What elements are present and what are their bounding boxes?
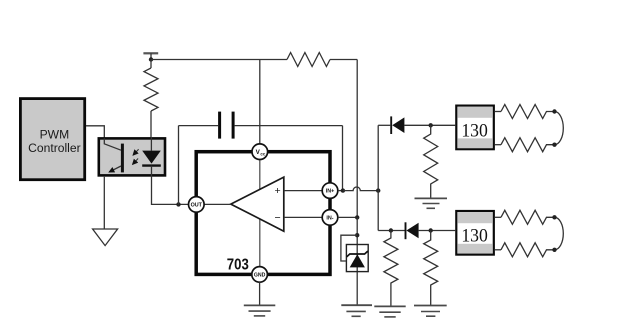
svg-text:IN+: IN+ xyxy=(326,189,335,195)
wire: IN- down through zener to ground xyxy=(356,217,358,305)
wire: D1 anode to load box 1 xyxy=(404,124,455,126)
wire: zener left bracket xyxy=(341,235,357,261)
wire: diode branch vertical x=378 xyxy=(377,125,379,230)
op-amp A1 triangle xyxy=(231,177,284,231)
resistor R2 (top feedback resistor) xyxy=(287,53,330,67)
wire: T1 bottom output xyxy=(495,144,501,146)
ground (open triangle) for optocoupler emitter xyxy=(93,229,118,246)
resistor R7a (T2 top) xyxy=(501,210,555,224)
svg-text:OUT: OUT xyxy=(191,203,203,209)
node: T2 loop top xyxy=(552,215,556,219)
wire: GND pin to ground xyxy=(259,282,261,305)
diode D1 triangle xyxy=(392,117,404,133)
zener diode VR1 cathode bar xyxy=(347,251,368,257)
node: IN- junction xyxy=(355,215,359,219)
resistor R5 (row2 right, to ground) xyxy=(424,231,438,306)
node: rail junction dot xyxy=(149,57,153,61)
power rail tap (supply bar) xyxy=(143,53,158,59)
wire: Vcc drop from rail to pin xyxy=(259,60,261,144)
wire: IN+ pin to junction row xyxy=(338,190,343,192)
diode D2 triangle xyxy=(406,223,418,239)
capacitor C1 plates xyxy=(220,112,234,139)
node: row2 left resistor junction xyxy=(389,228,393,232)
wire: top rail right segment xyxy=(330,59,357,61)
wire: internal Vcc to GND xyxy=(259,160,261,267)
svg-text:130: 130 xyxy=(461,226,488,247)
node: OUT junction dot xyxy=(176,202,180,206)
svg-text:GND: GND xyxy=(254,273,266,279)
resistor R1 (LED bias resistor) xyxy=(144,68,158,111)
optocoupler phototransistor emitter with arrow xyxy=(109,166,121,172)
pin OUT xyxy=(189,197,205,213)
load block T1 (130) xyxy=(456,106,494,150)
pin IN+ xyxy=(322,183,338,199)
resistor R4 (row2 left, to ground) xyxy=(384,231,398,307)
wire: R1 down to optocoupler top xyxy=(150,111,152,138)
wire: LED cathode down to OUT node xyxy=(152,166,189,205)
ground for R3 xyxy=(415,198,448,208)
wire: T2 load loop arc xyxy=(555,217,564,250)
wire: IN- pin to feedback drop xyxy=(338,216,357,218)
svg-text:130: 130 xyxy=(461,120,488,141)
IC U1 703 body xyxy=(196,152,330,275)
optocoupler light arrow 2 xyxy=(133,159,138,165)
wire: feedback drop x=357 from rail to IN- and zener xyxy=(356,60,358,218)
node: T1 loop bottom xyxy=(552,143,556,147)
wire: PWM output to optocoupler xyxy=(86,126,104,139)
resistor R7b (T2 bottom) xyxy=(501,243,555,257)
node: zener top junction xyxy=(355,233,359,237)
svg-text:Controller: Controller xyxy=(28,141,80,155)
node: T2 loop bottom xyxy=(552,248,556,252)
diode D2 cathode bar xyxy=(405,222,407,239)
PWM controller block xyxy=(20,99,84,180)
svg-text:PWM: PWM xyxy=(40,128,70,142)
wire: D2 anode to load box 2 xyxy=(419,230,456,232)
node: IN+ / capacitor junction xyxy=(341,188,345,192)
node: IN+ / diode branch junction xyxy=(376,188,380,192)
zener diode VR1 box xyxy=(346,245,368,272)
wire: top rail left segment xyxy=(151,59,287,61)
node: row1 resistor junction xyxy=(429,123,433,127)
load block T2 (130) xyxy=(456,211,494,255)
wire: capacitor left lead xyxy=(179,125,219,127)
node: T1 loop top xyxy=(552,109,556,113)
svg-text:+: + xyxy=(275,185,281,197)
optocoupler LED cathode bar xyxy=(142,164,161,166)
wire: capacitor drop to IN+ node xyxy=(342,126,344,191)
pin IN- xyxy=(322,210,338,226)
wire: IN+ row with hop over feedback drop xyxy=(343,187,378,191)
wire: row2 from vertical to diode D2 xyxy=(378,230,405,232)
optocoupler light arrow 1 xyxy=(133,149,138,155)
zener diode VR1 triangle xyxy=(350,254,365,267)
resistor R6b (T1 bottom) xyxy=(501,138,555,152)
ground for zener xyxy=(341,305,372,316)
ground for R4 xyxy=(374,306,405,317)
svg-text:−: − xyxy=(275,212,281,224)
pin Vcc xyxy=(252,144,268,160)
wire: T1 top output xyxy=(495,111,501,113)
wire: T1 load loop arc xyxy=(555,112,564,145)
svg-text:IN-: IN- xyxy=(326,216,333,222)
svg-text:703: 703 xyxy=(227,257,249,274)
svg-text:cc: cc xyxy=(260,151,265,156)
node: row2 right resistor junction xyxy=(429,228,433,232)
wire: T2 top output xyxy=(495,216,501,218)
wire: capacitor right lead to IN+ drop xyxy=(235,125,343,127)
resistor R3 (row1 to ground) xyxy=(424,125,438,198)
wire: row1 to diode D1 xyxy=(378,124,390,126)
optocoupler phototransistor base bar xyxy=(121,144,124,173)
wire: op-amp + input to IN+ pin xyxy=(284,190,322,192)
wire: LED anode inside box xyxy=(150,137,152,151)
wire: left bias branch upper xyxy=(150,60,152,69)
wire: capacitor left leg drop to OUT node xyxy=(178,126,180,205)
ground for R5 xyxy=(414,306,447,317)
pin GND xyxy=(252,267,268,283)
optocoupler LED triangle xyxy=(142,151,161,164)
optocoupler U2 body xyxy=(99,138,165,175)
wire: T2 bottom output xyxy=(495,249,501,251)
diode D1 cathode bar xyxy=(390,116,392,134)
ground for IC GND xyxy=(244,305,275,316)
wire: OUT pin to op-amp xyxy=(204,203,231,205)
resistor R6a (T1 top) xyxy=(501,105,555,119)
wire: emitter to ground xyxy=(103,177,105,229)
optocoupler phototransistor collector xyxy=(104,138,121,150)
wire: op-amp - input to IN- pin xyxy=(284,216,322,218)
